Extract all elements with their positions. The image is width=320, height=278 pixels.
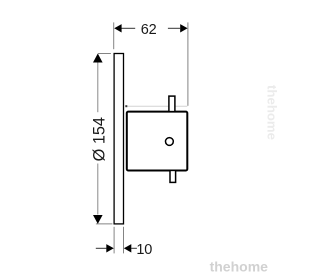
dim 10: left-pointing arrow bbox=[124, 244, 132, 252]
dim 10: left tail bbox=[96, 247, 107, 249]
svg-text:62: 62 bbox=[141, 22, 157, 38]
svg-text:thehome: thehome bbox=[264, 85, 278, 140]
dim 10: right-pointing arrow bbox=[106, 244, 114, 252]
svg-text:10: 10 bbox=[136, 242, 152, 258]
dim 62: left tail bbox=[122, 27, 136, 29]
svg-text:Ø 154: Ø 154 bbox=[91, 117, 109, 161]
dim 62: left arrow bbox=[114, 24, 121, 32]
svg-text:thehome: thehome bbox=[210, 259, 269, 275]
bottom stub bbox=[170, 170, 176, 182]
wall plate (side view) bbox=[114, 54, 123, 224]
center circle bbox=[166, 138, 174, 146]
dim 154: up arrow bbox=[93, 54, 103, 63]
top stub bbox=[169, 96, 175, 112]
dim 154: bottom extension line bbox=[96, 223, 113, 225]
dim 10: left extension line bbox=[113, 227, 115, 254]
dim 154: top extension line bbox=[98, 53, 111, 55]
dim 62: right extension line bbox=[187, 22, 189, 105]
dim 62: right tail bbox=[168, 27, 180, 29]
dim 10: right tail bbox=[131, 247, 137, 249]
dim 154: shaft lower segment bbox=[97, 164, 99, 215]
dim 62: right arrow bbox=[180, 24, 187, 32]
dim 62: left extension line bbox=[113, 22, 115, 49]
dim 154: shaft upper segment bbox=[97, 62, 99, 112]
dim 154: down arrow bbox=[93, 215, 103, 224]
faint sleeve line above body bbox=[126, 105, 187, 107]
valve body square bbox=[127, 112, 188, 171]
sleeve line left end tick bbox=[125, 105, 127, 107]
dim 10: right extension line bbox=[123, 227, 125, 254]
